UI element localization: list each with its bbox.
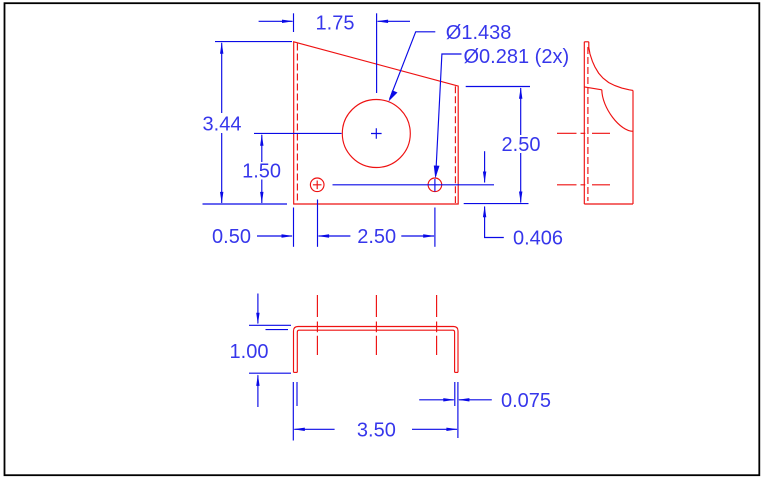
side view outer flange curve	[589, 48, 633, 91]
side view flange top line	[584, 87, 602, 90]
dimension 1.75 extension line left	[293, 13, 295, 32]
svg-text:2.50: 2.50	[357, 226, 396, 248]
dimension 1.75 extension line right	[376, 13, 378, 93]
svg-text:1.00: 1.00	[230, 341, 269, 363]
left leg end cap	[294, 371, 298, 373]
small hole right D0.281	[428, 178, 442, 192]
centerline right hole	[436, 295, 438, 355]
svg-text:1.75: 1.75	[316, 13, 355, 35]
extension line below left hole	[317, 200, 319, 247]
side view centerline lower	[557, 184, 610, 186]
dimension 2.50 right bottom extension	[464, 203, 529, 205]
center mark right hole (blue)	[434, 179, 436, 192]
dimension 1.75 right arrow	[378, 20, 410, 22]
centerline large hole	[375, 295, 377, 355]
dimension 2.50 bottom right arrow	[401, 235, 434, 237]
dimension 2.50 right line and arrows	[520, 88, 522, 135]
dimension 1.50 extension line (circle center)	[254, 132, 342, 134]
right leg end cap	[455, 371, 458, 373]
side view hidden line	[587, 47, 589, 201]
center mark left hole	[313, 181, 322, 190]
svg-text:2.50: 2.50	[502, 134, 541, 156]
dimension 2.50 bottom left arrow	[319, 235, 351, 237]
side view top edge	[584, 41, 589, 43]
dimension 0.075 left arrow	[419, 399, 454, 401]
dimension 3.50 extension lines	[292, 382, 294, 441]
centerline left hole	[316, 295, 318, 355]
dimension 0.075 right arrow and tail	[459, 399, 492, 401]
top view outer profile	[294, 327, 459, 373]
extension line below right hole	[434, 208, 436, 247]
side view web edge left	[583, 42, 585, 204]
side view bottom edge	[584, 203, 633, 205]
svg-text:Ø0.281 (2x): Ø0.281 (2x)	[464, 46, 570, 68]
extension line below left edge	[293, 208, 295, 247]
side view web edge right	[588, 42, 590, 48]
bend line left (hidden dashed)	[296, 44, 298, 204]
dimension 0.406 lower arrow and tail	[485, 207, 504, 238]
svg-text:3.44: 3.44	[203, 113, 242, 135]
small hole left D0.281	[310, 178, 324, 192]
dimension 3.44 bottom extension line	[203, 203, 288, 205]
dimension 0.50 arrow	[257, 235, 292, 237]
dimension 1.75 left arrow	[259, 20, 293, 22]
svg-text:1.50: 1.50	[242, 161, 281, 183]
dimension 2.50 right top extension	[466, 86, 530, 88]
svg-text:0.075: 0.075	[501, 390, 551, 412]
dimension 1.50 line and arrows	[261, 135, 263, 162]
large hole D1.438	[342, 100, 410, 168]
svg-text:0.50: 0.50	[212, 226, 251, 248]
hole centre extension line (0.406)	[333, 184, 495, 186]
dimension 1.00 top extension lines	[249, 324, 291, 326]
svg-text:Ø1.438: Ø1.438	[446, 22, 512, 44]
dimension 3.50 right arrow	[412, 428, 457, 430]
svg-text:3.50: 3.50	[357, 420, 396, 442]
side view right edge	[632, 90, 634, 204]
svg-text:0.406: 0.406	[513, 227, 563, 249]
front view outline	[294, 42, 459, 204]
leader D1.438	[390, 32, 436, 99]
dimension 1.00 bottom extension line	[249, 372, 291, 374]
side view inner flange curve	[602, 90, 633, 132]
top view inner profile	[297, 330, 454, 372]
dimension 0.406 upper arrow	[484, 151, 486, 182]
bend line right (hidden dashed)	[454, 86, 456, 203]
dimension 1.00 top arrow	[257, 294, 259, 324]
side view centerline upper	[557, 132, 610, 134]
dimension 3.44 top extension line	[215, 41, 292, 43]
dimension 3.44 line and arrows	[221, 43, 223, 113]
leader D0.281	[436, 54, 462, 176]
dimension 1.00 bottom arrow	[257, 375, 259, 407]
dimension 3.50 left arrow	[294, 428, 334, 430]
center mark large hole (blue)	[371, 128, 382, 139]
